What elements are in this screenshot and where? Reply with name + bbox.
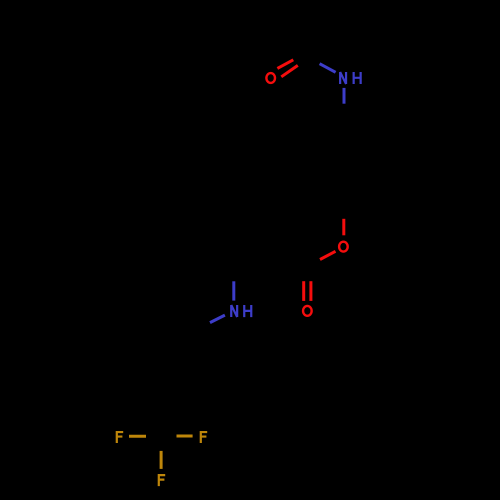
wire C1 half of C1-N1 xyxy=(307,55,320,64)
bond C1-N1 (N half, blue) xyxy=(320,64,336,73)
atom N1 label N xyxy=(340,72,346,84)
bond N1-Ca (N half, blue) xyxy=(343,88,346,104)
atom O ester label xyxy=(339,242,348,252)
bond N2-C1' (N half, blue) xyxy=(210,315,225,323)
atom N1 label H xyxy=(354,72,361,84)
wire C half of N1-Ca xyxy=(342,104,345,122)
wire Ccarbonyl-Calpha xyxy=(271,247,305,268)
bond Oester-Ccarbonyl (O half, red) xyxy=(320,251,336,259)
wire C half of C=O carbonyl xyxy=(304,268,311,281)
atom F left label xyxy=(116,431,124,443)
atom N2 label H xyxy=(244,305,251,317)
bond C-F bottom (F half, gold) xyxy=(160,451,163,469)
wire C1 half of C=O double bond xyxy=(293,52,312,66)
wire Cb half of Cb-Oester xyxy=(342,206,345,219)
wire C half of Cbeta-N2 xyxy=(232,268,235,282)
wire methyl C0-C1 xyxy=(306,11,309,55)
ring A benzene xyxy=(307,122,380,206)
atom F right label xyxy=(200,431,208,443)
atom O acetyl label xyxy=(266,73,275,83)
bond C-F left (F half, gold) xyxy=(129,435,146,438)
atom F bottom label xyxy=(158,474,166,486)
ring B benzene xyxy=(162,332,233,414)
carbon skeleton (black-on-black, invisible as in reference) xyxy=(146,11,380,451)
bond Cbeta-N2 (N half, blue) xyxy=(232,281,235,300)
wire C half of Oester-Ccarbonyl xyxy=(304,260,320,268)
bond Cb-Oester (O half, red) xyxy=(342,219,345,236)
wire C halves of C-F bonds xyxy=(146,436,177,451)
acetyl C=O double bond (O half, red) xyxy=(277,60,297,77)
wire C3'-CF3 xyxy=(160,393,163,437)
atom N2 label N xyxy=(231,305,237,317)
bond C-F right (F half, gold) xyxy=(177,435,193,438)
carbonyl C=O double bond (O half, red) xyxy=(304,281,311,301)
wire Calpha=Cbeta double xyxy=(234,247,271,271)
atom O carbonyl label xyxy=(303,306,312,316)
wire C half of N2-C1' xyxy=(197,323,211,332)
